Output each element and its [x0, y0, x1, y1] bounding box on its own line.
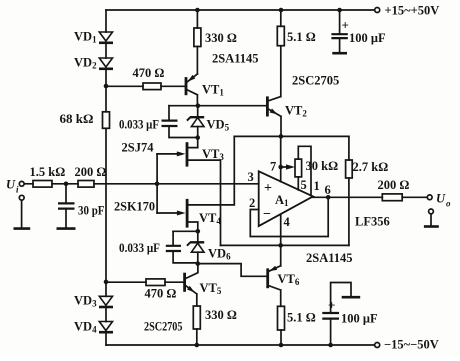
svg-text:2.7 kΩ: 2.7 kΩ — [353, 160, 389, 174]
svg-text:U: U — [6, 178, 16, 192]
svg-text:5.1 Ω: 5.1 Ω — [287, 311, 316, 325]
svg-text:+: + — [264, 181, 272, 196]
svg-text:100 μF: 100 μF — [341, 312, 378, 326]
svg-text:VT6: VT6 — [278, 272, 300, 287]
svg-text:5: 5 — [301, 178, 307, 192]
svg-text:2SA1145: 2SA1145 — [306, 251, 353, 265]
svg-text:i: i — [16, 185, 19, 195]
svg-text:+: + — [328, 298, 335, 313]
svg-text:VT2: VT2 — [285, 104, 307, 119]
svg-text:VD3: VD3 — [74, 294, 97, 309]
svg-text:6: 6 — [325, 183, 331, 197]
svg-text:2SC2705: 2SC2705 — [292, 74, 339, 88]
svg-text:+: + — [342, 18, 349, 33]
svg-text:VT5: VT5 — [200, 281, 222, 296]
svg-text:7: 7 — [270, 160, 276, 174]
svg-text:LF356: LF356 — [355, 215, 390, 229]
svg-text:30 kΩ: 30 kΩ — [306, 159, 339, 173]
svg-text:0.033 μF: 0.033 μF — [119, 118, 159, 132]
svg-text:VD1: VD1 — [74, 30, 97, 45]
svg-text:o: o — [446, 199, 451, 209]
svg-text:VD5: VD5 — [207, 118, 230, 133]
svg-text:470 Ω: 470 Ω — [145, 287, 177, 301]
svg-text:100 μF: 100 μF — [349, 31, 386, 45]
svg-text:VD6: VD6 — [208, 247, 231, 262]
svg-text:2SC2705: 2SC2705 — [144, 320, 183, 334]
svg-text:+15~+50V: +15~+50V — [385, 4, 440, 18]
svg-text:1.5 kΩ: 1.5 kΩ — [30, 165, 66, 179]
svg-text:68 kΩ: 68 kΩ — [60, 112, 94, 126]
svg-text:4: 4 — [284, 215, 291, 229]
svg-text:VD4: VD4 — [74, 320, 97, 335]
svg-text:470 Ω: 470 Ω — [133, 66, 165, 80]
svg-text:2SK170: 2SK170 — [114, 200, 155, 214]
svg-text:1: 1 — [314, 179, 320, 193]
svg-text:200 Ω: 200 Ω — [378, 178, 410, 192]
svg-text:200 Ω: 200 Ω — [75, 165, 107, 179]
svg-text:VT1: VT1 — [202, 83, 224, 98]
svg-text:0.033 μF: 0.033 μF — [119, 241, 160, 255]
svg-text:330 Ω: 330 Ω — [205, 31, 237, 45]
svg-text:U: U — [436, 192, 446, 206]
svg-text:2SA1145: 2SA1145 — [212, 52, 259, 66]
svg-text:30 pF: 30 pF — [78, 204, 105, 218]
svg-text:VT4: VT4 — [199, 211, 221, 226]
svg-text:5.1 Ω: 5.1 Ω — [287, 30, 316, 44]
svg-text:330 Ω: 330 Ω — [205, 308, 237, 322]
svg-text:VT3: VT3 — [202, 147, 224, 162]
svg-text:3: 3 — [248, 170, 254, 184]
svg-text:2SJ74: 2SJ74 — [122, 141, 155, 155]
svg-text:−15~−50V: −15~−50V — [384, 338, 439, 352]
svg-text:−: − — [263, 207, 271, 222]
svg-text:2: 2 — [249, 196, 255, 210]
svg-text:VD2: VD2 — [74, 56, 97, 71]
svg-text:A1: A1 — [275, 193, 289, 208]
